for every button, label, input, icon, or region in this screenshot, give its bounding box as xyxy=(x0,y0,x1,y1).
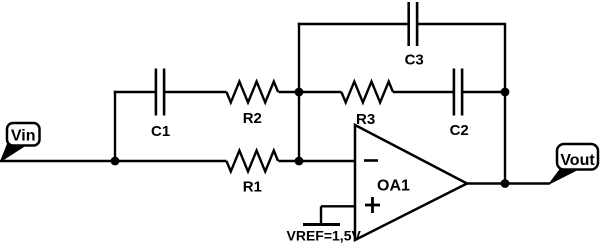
wire: C3 right plate to right rail xyxy=(417,23,506,25)
VREF reference rail symbol xyxy=(303,223,340,226)
Vin callout tail xyxy=(1,144,24,162)
svg-text:C2: C2 xyxy=(450,122,469,139)
svg-text:R2: R2 xyxy=(243,110,262,127)
wire: C2 right plate to right rail xyxy=(462,91,505,93)
svg-text:Vout: Vout xyxy=(560,152,595,169)
svg-text:Vin: Vin xyxy=(11,128,36,145)
svg-text:OA1: OA1 xyxy=(377,178,410,195)
wire: vertical from Vin node up to C1 branch xyxy=(114,91,116,161)
Vin callout box xyxy=(7,123,40,146)
wire: C1 right plate to R2 left terminal xyxy=(164,91,226,93)
svg-text:VREF=1,5V: VREF=1,5V xyxy=(287,228,362,244)
junction at output node xyxy=(501,179,510,188)
resistor R2 xyxy=(227,82,279,103)
Vout callout box xyxy=(557,144,598,170)
capacitor C1 xyxy=(156,69,164,116)
wire: C1 branch to C1 left plate xyxy=(114,91,156,93)
wire: top rail to C3 left plate xyxy=(298,23,409,25)
Vout callout tail xyxy=(549,168,575,184)
svg-text:R1: R1 xyxy=(243,179,262,196)
resistor R1 xyxy=(227,151,279,172)
wire: op-amp output to Vout xyxy=(466,182,550,184)
svg-text:C1: C1 xyxy=(151,123,170,140)
op-amp non-inverting input marking (plus) xyxy=(365,197,380,213)
wire: mid branch from inverting node to R3 left terminal xyxy=(299,91,341,93)
resistor R3 xyxy=(341,82,393,103)
wire: R3 right terminal to C2 left plate xyxy=(393,91,454,93)
capacitor C3 xyxy=(409,2,417,46)
wire: non-inverting input to VREF xyxy=(321,205,356,207)
capacitor C2 xyxy=(454,69,462,116)
wire: R1 right terminal to op-amp inverting input xyxy=(279,160,357,162)
wire: VREF stub xyxy=(320,206,322,224)
wire: input net from Vin to R1 left terminal xyxy=(0,160,227,162)
wire: R2 right terminal to inverting node rail xyxy=(279,91,300,93)
wire: left vertical rail of feedback network xyxy=(298,23,300,161)
op-amp inverting input marking (minus) xyxy=(364,159,378,162)
svg-text:C3: C3 xyxy=(405,52,424,69)
junction at inverting node, mid branch xyxy=(295,88,304,97)
svg-text:R3: R3 xyxy=(356,111,375,128)
junction at inverting node, input row xyxy=(295,157,304,166)
junction at Vin node xyxy=(111,157,120,166)
junction at right rail, mid branch xyxy=(501,88,510,97)
wire: right vertical rail down to output net xyxy=(504,24,506,184)
op-amp OA1 triangle xyxy=(355,125,467,240)
